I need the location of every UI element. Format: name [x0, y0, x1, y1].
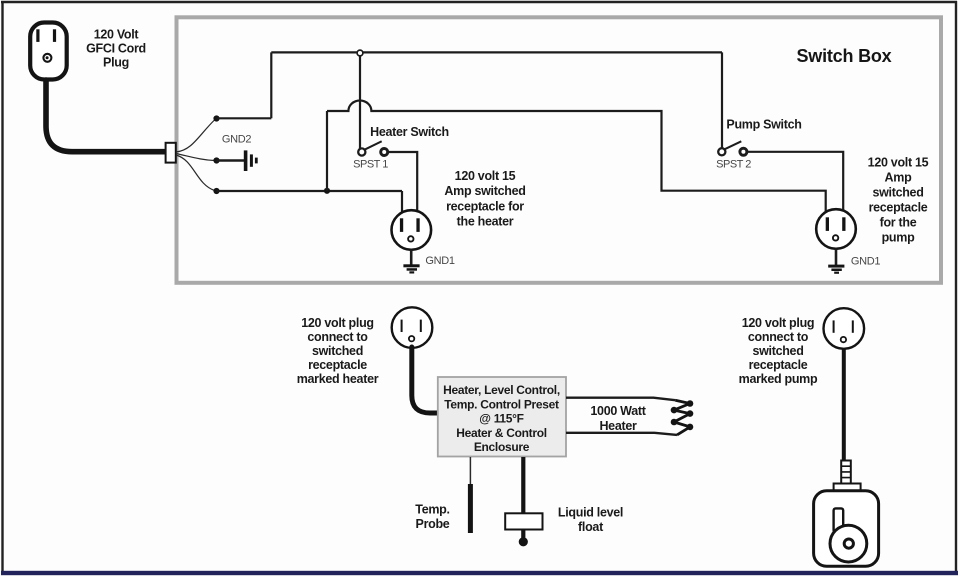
control enclosure box	[438, 377, 566, 457]
Temp Probe label	[415, 503, 449, 532]
heater plug slot left	[401, 320, 403, 332]
svg-text:Probe: Probe	[416, 517, 450, 531]
junction neutral	[324, 188, 330, 194]
pump receptacle slot right	[842, 217, 845, 231]
svg-text:receptacle: receptacle	[308, 358, 367, 372]
svg-text:Heater Switch: Heater Switch	[370, 125, 449, 139]
pump outlet slot	[834, 508, 844, 532]
GFCI plug ground hole	[43, 54, 51, 62]
heater plug caption	[297, 316, 379, 386]
svg-text:switched: switched	[312, 344, 363, 358]
heater receptacle ground stem	[410, 250, 413, 265]
pump M1 body	[814, 491, 879, 566]
svg-text:Enclosure: Enclosure	[474, 440, 530, 454]
float ball	[519, 537, 528, 546]
svg-text:marked heater: marked heater	[297, 372, 379, 386]
page border right	[955, 1, 957, 572]
wire ground to GND2	[217, 159, 245, 162]
ground symbol GND2	[244, 150, 258, 171]
svg-text:for the: for the	[880, 216, 917, 230]
wire neutral drop to heater receptacle	[401, 191, 403, 213]
svg-text:float: float	[578, 520, 604, 534]
heater plug ground hole	[409, 336, 414, 341]
heater receptacle ground hole	[408, 236, 413, 241]
svg-text:Temp.: Temp.	[415, 503, 449, 517]
pump receptacle ground hole	[833, 235, 838, 240]
pump impeller hub	[844, 539, 853, 548]
svg-text:120 volt plug: 120 volt plug	[742, 316, 815, 330]
svg-text:the heater: the heater	[457, 215, 514, 229]
page border left	[1, 1, 3, 572]
svg-text:Heater, Level Control,: Heater, Level Control,	[443, 383, 560, 397]
pump switch contact left	[718, 148, 725, 155]
GFCI plug slot left	[36, 29, 39, 42]
pump receptacle ground stem	[835, 249, 838, 265]
GFCI plug body	[30, 23, 66, 80]
svg-text:Amp: Amp	[885, 171, 913, 185]
GFCI plug slot right	[53, 29, 56, 42]
GFCI cord	[46, 80, 166, 152]
pump plug caption	[739, 316, 818, 386]
svg-text:GND1: GND1	[425, 255, 455, 267]
pump impeller circle	[830, 525, 867, 562]
svg-text:Plug: Plug	[103, 56, 129, 70]
svg-text:Temp. Control Preset: Temp. Control Preset	[444, 397, 559, 411]
svg-text:120 volt 15: 120 volt 15	[868, 156, 929, 170]
page border bottom navy bar	[1, 571, 958, 575]
page border top	[1, 1, 957, 3]
wire hot horizontal to riser	[217, 117, 272, 119]
pump receptacle R2	[816, 209, 856, 249]
svg-text:marked pump: marked pump	[739, 372, 818, 386]
svg-text:120 volt 15: 120 volt 15	[455, 169, 516, 183]
wire pump switched to receptacle	[747, 152, 844, 211]
pump cord	[842, 349, 846, 461]
pump switch SPST2 lever	[725, 141, 742, 149]
node hot	[213, 115, 219, 121]
svg-text:receptacle: receptacle	[749, 358, 808, 372]
heater switch contact left	[358, 148, 365, 155]
wire heater switch drop	[359, 53, 361, 149]
wire neutral bus with hop	[327, 101, 826, 211]
fan wire to hot node	[176, 120, 215, 152]
svg-text:SPST 2: SPST 2	[716, 159, 751, 171]
svg-text:receptacle for: receptacle for	[446, 200, 524, 214]
svg-text:GFCI Cord: GFCI Cord	[86, 42, 146, 56]
wire heater element top	[566, 398, 675, 401]
pump plug ground hole	[841, 337, 846, 342]
svg-text:Heater: Heater	[599, 419, 637, 433]
svg-text:1000 Watt: 1000 Watt	[590, 404, 646, 418]
temp probe body	[468, 484, 473, 533]
heater receptacle R1	[392, 210, 432, 250]
GFCI label text	[86, 28, 146, 70]
wire heater switched to receptacle	[387, 152, 417, 213]
wire hot riser	[270, 52, 272, 118]
heater receptacle slot right	[416, 218, 419, 232]
pump receptacle slot left	[826, 217, 829, 231]
svg-text:Pump Switch: Pump Switch	[726, 118, 801, 132]
heater receptacle caption	[444, 169, 525, 229]
cord entry gland	[166, 143, 176, 163]
fan wire to neutral node	[176, 155, 215, 191]
temp probe lead	[469, 457, 471, 484]
node ground	[213, 157, 219, 163]
svg-text:switched: switched	[752, 344, 803, 358]
wire pump switch drop	[721, 52, 723, 148]
heating element dots	[671, 400, 694, 430]
ground symbol GND1 heater	[403, 264, 419, 273]
svg-text:pump: pump	[882, 231, 915, 245]
svg-text:120 volt plug: 120 volt plug	[301, 316, 374, 330]
svg-text:SPST 1: SPST 1	[353, 159, 388, 171]
1000 Watt Heater label	[590, 404, 646, 433]
wire heater element bottom	[566, 433, 677, 435]
svg-text:switched: switched	[872, 186, 923, 200]
pump plug slot left	[833, 320, 835, 332]
svg-text:Heater & Control: Heater & Control	[456, 426, 547, 440]
node neutral	[213, 188, 219, 194]
svg-text:receptacle: receptacle	[869, 201, 928, 215]
Liquid level float label	[558, 506, 623, 535]
pump plug P2	[824, 308, 865, 349]
node tap open circle	[357, 50, 363, 56]
switch box enclosure	[177, 17, 942, 283]
wire hot top bus	[271, 51, 722, 53]
heater receptacle slot left	[400, 218, 403, 232]
ground symbol GND1 pump	[828, 265, 844, 274]
svg-text:Switch Box: Switch Box	[796, 46, 891, 66]
pump plug slot right	[852, 320, 854, 332]
heater plug cord	[412, 347, 440, 413]
pump switch contact right	[740, 148, 747, 155]
svg-text:GND2: GND2	[222, 134, 252, 146]
heater plug slot right	[420, 320, 422, 332]
svg-text:GND1: GND1	[851, 256, 881, 268]
svg-text:120 Volt: 120 Volt	[94, 28, 140, 42]
heater switch contact right	[381, 149, 388, 156]
svg-text:@ 115°F: @ 115°F	[479, 412, 523, 426]
wire neutral riser	[326, 111, 328, 191]
svg-text:Liquid level: Liquid level	[558, 506, 623, 520]
float rod	[521, 457, 525, 539]
control enclosure text	[443, 383, 560, 454]
float body	[505, 513, 542, 529]
svg-text:Amp switched: Amp switched	[444, 184, 525, 198]
heating element EL1 zigzag	[674, 400, 690, 435]
wire neutral horizontal	[217, 190, 403, 192]
heater switch SPST1 lever	[365, 141, 382, 149]
pump collar	[834, 484, 861, 491]
fan wire to ground node	[176, 154, 215, 161]
svg-text:connect to: connect to	[307, 330, 368, 344]
pump strain relief	[841, 461, 851, 484]
heater plug P1	[392, 307, 433, 348]
svg-text:connect to: connect to	[748, 330, 809, 344]
pump receptacle caption	[868, 156, 929, 245]
